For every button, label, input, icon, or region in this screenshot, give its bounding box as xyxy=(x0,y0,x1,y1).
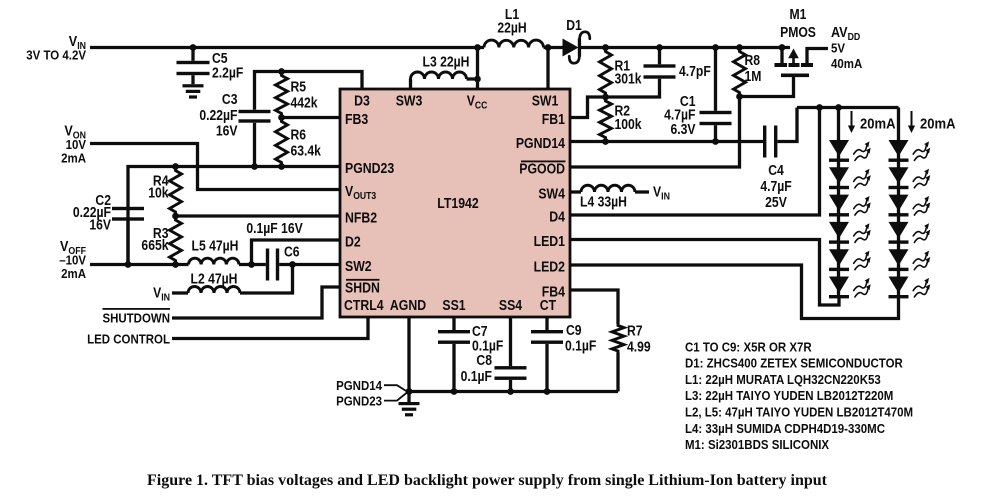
svg-text:20mA: 20mA xyxy=(920,115,956,132)
capacitor C8 xyxy=(509,317,512,366)
label R5 442k xyxy=(291,79,307,95)
svg-text:L3 22µH: L3 22µH xyxy=(423,54,470,70)
junction R5 top xyxy=(278,68,285,75)
pin VCC xyxy=(467,92,488,111)
svg-text:SW4: SW4 xyxy=(538,185,565,201)
svg-text:R5: R5 xyxy=(291,79,307,95)
label R3 665k xyxy=(153,225,169,241)
label C3 0.22µF 16V xyxy=(222,91,238,107)
label C6 xyxy=(284,244,300,260)
wire L1 to D1 xyxy=(544,46,564,49)
junction R1 top xyxy=(602,44,609,51)
svg-text:CT: CT xyxy=(540,297,557,313)
svg-text:40mA: 40mA xyxy=(831,56,862,71)
svg-text:R8: R8 xyxy=(745,52,761,68)
svg-text:FB3: FB3 xyxy=(345,111,369,127)
LED left string #4 xyxy=(829,222,849,239)
wire gate xyxy=(740,77,794,97)
LED left string #3 xyxy=(829,195,849,212)
svg-text:0.1µF: 0.1µF xyxy=(461,368,492,384)
svg-text:CTRL4: CTRL4 xyxy=(344,297,384,313)
wire FB4 to R7 xyxy=(570,290,618,324)
pin SW2 xyxy=(345,258,372,274)
svg-text:D2: D2 xyxy=(345,233,361,249)
wire FB1 xyxy=(570,97,606,118)
junction R2 bottom xyxy=(602,138,609,145)
node SHUTDOWN input label xyxy=(102,311,170,326)
label 20mA right xyxy=(911,111,913,127)
svg-text:PGND23: PGND23 xyxy=(336,394,382,409)
wire VON to VOUT3 xyxy=(90,144,340,190)
svg-text:D4: D4 xyxy=(549,208,565,224)
pin D2 xyxy=(345,233,361,249)
LED right string #3 xyxy=(889,195,909,212)
svg-text:2mA: 2mA xyxy=(61,266,86,281)
svg-text:0.1µF 16V: 0.1µF 16V xyxy=(246,220,302,236)
pin CTRL4 xyxy=(344,297,384,313)
junction L3/VCC xyxy=(474,76,481,83)
svg-text:442k: 442k xyxy=(291,95,319,111)
svg-text:VIN: VIN xyxy=(153,285,170,304)
LED left string #4 light arrows xyxy=(854,228,867,236)
junction R1/R2/FB1 xyxy=(602,94,609,101)
svg-text:16V: 16V xyxy=(89,217,111,233)
wire C2 bottom xyxy=(126,221,129,265)
LED left string #1 light arrows xyxy=(854,146,867,154)
wire PGND23 xyxy=(128,167,340,265)
wire NFB2 xyxy=(176,214,341,217)
wire L5 to C6 xyxy=(239,263,266,266)
LED right string #2 light arrows xyxy=(913,173,926,181)
junction C1 bottom xyxy=(712,138,719,145)
node AVDD output label xyxy=(831,23,860,43)
junction R4 top xyxy=(172,163,179,170)
node VIN input label xyxy=(69,32,86,52)
wire right LED string spine xyxy=(897,108,900,297)
pin FB3 xyxy=(345,111,369,127)
junction AGND/ground xyxy=(406,388,413,395)
label L1 22µH xyxy=(505,6,520,22)
LED left string #2 xyxy=(829,167,849,184)
U1 label LT1942 xyxy=(437,195,479,211)
pin PGOOD xyxy=(519,160,565,176)
svg-text:0.1µF: 0.1µF xyxy=(565,338,596,354)
svg-text:SW1: SW1 xyxy=(532,92,559,108)
svg-text:LED1: LED1 xyxy=(534,233,566,249)
resistor R5 442k xyxy=(276,72,288,118)
inductor L3 xyxy=(411,72,467,79)
capacitor C3 xyxy=(239,110,271,113)
wire PGOOD xyxy=(570,98,740,167)
svg-text:4.99: 4.99 xyxy=(627,339,651,355)
pin NFB2 xyxy=(345,209,377,225)
svg-text:L2 47µH: L2 47µH xyxy=(191,271,238,287)
wire D3 to divider top xyxy=(255,72,363,110)
wire C3 bottom xyxy=(253,123,256,167)
junction C1 top xyxy=(712,44,719,51)
resistor R3 665k xyxy=(170,216,182,265)
node LED CONTROL input label xyxy=(87,332,170,347)
pin PGND23 xyxy=(345,160,395,176)
capacitor 4.7pF xyxy=(658,48,661,65)
label PGND23 pointer xyxy=(336,394,382,409)
ground below C5 xyxy=(191,75,194,84)
LED left string #6 xyxy=(829,277,849,294)
wire FB3 xyxy=(282,116,341,119)
wire SHUTDOWN to SHDN xyxy=(172,287,340,318)
inductor L4 33µH xyxy=(581,185,635,192)
wire D1 to M1 xyxy=(580,46,790,49)
wire SW4 stub xyxy=(570,190,581,193)
label D1 xyxy=(566,17,582,33)
junction VCC/L1 xyxy=(474,44,481,51)
resistor R6 63.4k xyxy=(276,118,288,167)
svg-text:0.22µF: 0.22µF xyxy=(199,107,237,123)
inductor L5 47µH xyxy=(189,258,240,264)
label R2 100k xyxy=(615,103,631,119)
wire VIN rail xyxy=(90,46,484,49)
junction C2/VOFF xyxy=(125,261,132,268)
wire D2 xyxy=(252,240,341,265)
LED right string #1 light arrows xyxy=(913,146,926,154)
svg-text:1M: 1M xyxy=(745,68,762,84)
svg-text:SS4: SS4 xyxy=(499,297,523,313)
wire R7 to ground bus xyxy=(616,353,619,392)
junction R4/R3/NFB2 xyxy=(172,213,179,220)
label R7 4.99 xyxy=(627,323,643,339)
svg-text:63.4k: 63.4k xyxy=(291,143,322,159)
ground symbol AGND xyxy=(407,393,410,402)
svg-text:SW3: SW3 xyxy=(396,92,423,108)
wire SW1 drop xyxy=(546,48,549,90)
capacitor C5 xyxy=(191,48,194,61)
wire L3 right leg xyxy=(467,77,478,80)
svg-text:D1: D1 xyxy=(566,17,582,33)
svg-text:LED CONTROL: LED CONTROL xyxy=(87,332,170,347)
LED right string #6 light arrows xyxy=(913,283,926,291)
LED left string #3 light arrows xyxy=(854,201,867,209)
label C4 4.7µF 25V xyxy=(768,162,784,178)
wire C6 to SW2 xyxy=(279,263,340,266)
junction M1 source xyxy=(779,44,786,51)
capacitor C1 xyxy=(714,48,717,111)
label C7 0.1µF xyxy=(472,323,488,339)
svg-text:100k: 100k xyxy=(615,116,643,132)
svg-text:16V: 16V xyxy=(216,123,238,139)
junction SW1/L1 xyxy=(545,44,552,51)
LED right string #5 xyxy=(889,249,909,266)
wire D4 to rail xyxy=(570,108,820,216)
transistor M1 PMOS xyxy=(780,48,783,64)
svg-text:NFB2: NFB2 xyxy=(345,209,377,225)
label 4.7pF xyxy=(679,63,711,79)
label 0.1µF 16V (C6 value) xyxy=(246,220,302,236)
LED left string #5 light arrows xyxy=(854,255,867,263)
LED right string #4 xyxy=(889,222,909,239)
LED left string #5 xyxy=(829,249,849,266)
label R4 10k xyxy=(153,173,169,189)
svg-text:FB1: FB1 xyxy=(542,111,566,127)
label L2 47µH xyxy=(191,271,238,287)
pin VOUT3 xyxy=(345,183,376,202)
svg-text:M1: M1 xyxy=(790,6,807,22)
wire LED CONTROL to CTRL4 xyxy=(172,317,368,339)
LED left string #6 light arrows xyxy=(854,283,867,291)
inductor L2 47µH xyxy=(188,287,240,294)
op-amp U1 LT1942 IC body xyxy=(340,89,570,317)
capacitor C9 xyxy=(545,317,548,330)
svg-text:PMOS: PMOS xyxy=(780,24,816,40)
parts list line 3 xyxy=(685,372,881,387)
svg-text:6.3V: 6.3V xyxy=(670,121,695,137)
LED right string #5 light arrows xyxy=(913,255,926,263)
LED left string #1 xyxy=(829,140,849,157)
junction C7 bottom xyxy=(451,388,458,395)
svg-text:L2, L5: 47µH TAIYO YUDEN LB201: L2, L5: 47µH TAIYO YUDEN LB2012T470M xyxy=(685,405,913,420)
pin SW4 xyxy=(538,185,565,201)
svg-text:4.7µF: 4.7µF xyxy=(760,178,791,194)
node VIN label at L2 xyxy=(153,285,170,304)
capacitor C7 xyxy=(452,317,455,330)
svg-text:R7: R7 xyxy=(627,323,643,339)
svg-text:2.2µF: 2.2µF xyxy=(212,65,243,81)
pin AGND xyxy=(390,297,426,313)
junction R8/PGOOD/gate xyxy=(736,93,743,100)
svg-text:C8: C8 xyxy=(476,352,492,368)
wire AGND drop xyxy=(407,317,410,392)
wire VIN stub to L2 xyxy=(172,291,188,294)
wire L2 to SW2 xyxy=(240,265,293,294)
svg-text:D1: ZHCS400 ZETEX SEMICONDUCTO: D1: ZHCS400 ZETEX SEMICONDUCTOR xyxy=(685,356,903,371)
LED right string #6 xyxy=(889,277,909,294)
wire L4 to VIN xyxy=(635,190,649,193)
junction C6/L2/SW2 xyxy=(289,261,296,268)
label L5 47µH xyxy=(192,238,239,254)
svg-text:10k: 10k xyxy=(148,185,169,201)
svg-text:R6: R6 xyxy=(291,127,307,143)
svg-text:2mA: 2mA xyxy=(61,151,86,166)
svg-text:PGND23: PGND23 xyxy=(345,160,395,176)
svg-text:20mA: 20mA xyxy=(860,115,896,132)
pin FB4 xyxy=(542,283,566,299)
label PGND14 pointer xyxy=(336,378,382,393)
junction L5/D2/C6 xyxy=(248,261,255,268)
diode D1 (schottky) xyxy=(563,39,579,57)
svg-text:4.7pF: 4.7pF xyxy=(679,63,711,79)
junction left string/rail xyxy=(835,104,842,111)
label R8 1M xyxy=(745,52,761,68)
label L4 33µH xyxy=(580,194,627,210)
label L3 22µH xyxy=(423,54,470,70)
pin D4 xyxy=(549,208,565,224)
label R6 63.4k xyxy=(291,127,307,143)
svg-text:PGOOD: PGOOD xyxy=(519,160,565,176)
parts list line 1 xyxy=(685,340,812,355)
svg-text:L5 47µH: L5 47µH xyxy=(192,238,239,254)
resistor R8 1M xyxy=(734,48,746,97)
resistor R7 4.99 xyxy=(612,324,624,353)
pin SS1 xyxy=(442,297,466,313)
junction R3 bottom xyxy=(172,261,179,268)
label C5 2.2µF xyxy=(212,50,228,66)
inductor L1 xyxy=(484,40,544,47)
svg-text:Figure 1. TFT bias voltages an: Figure 1. TFT bias voltages and LED back… xyxy=(147,472,828,489)
svg-text:SHUTDOWN: SHUTDOWN xyxy=(102,311,170,326)
svg-text:L4: 33µH SUMIDA CDPH4D19-330MC: L4: 33µH SUMIDA CDPH4D19-330MC xyxy=(685,421,885,436)
label R1 301k xyxy=(615,58,631,74)
capacitor C2 xyxy=(112,207,144,210)
svg-text:22µH: 22µH xyxy=(497,20,526,36)
svg-text:SW2: SW2 xyxy=(345,258,372,274)
pin SS4 xyxy=(499,297,523,313)
junction C9 bottom xyxy=(544,388,551,395)
pin D3 xyxy=(354,92,370,108)
wire L3 left leg xyxy=(409,79,412,89)
svg-text:L1: 22µH MURATA LQH32CN220K53: L1: 22µH MURATA LQH32CN220K53 xyxy=(685,372,881,387)
label 20mA left xyxy=(851,111,853,127)
LED right string #4 light arrows xyxy=(913,228,926,236)
pin FB1 xyxy=(542,111,566,127)
capacitor C6 xyxy=(266,249,269,281)
wire left LED string spine xyxy=(837,108,840,297)
pin SW1 xyxy=(532,92,559,108)
junction R6 bottom xyxy=(278,163,285,170)
junction 4.7pF top xyxy=(656,44,663,51)
wire LED rail xyxy=(797,106,899,109)
parts list line 4 xyxy=(685,388,893,403)
svg-text:SHDN: SHDN xyxy=(345,280,380,296)
svg-text:301k: 301k xyxy=(615,71,643,87)
svg-text:C3: C3 xyxy=(222,91,238,107)
figure caption xyxy=(147,472,828,489)
label C8 0.1µF xyxy=(476,352,492,368)
label C9 0.1µF xyxy=(566,322,582,338)
capacitor C4 xyxy=(763,126,766,158)
pin LED1 xyxy=(534,233,566,249)
svg-text:L3: 22µH TAIYO YUDEN LB2012T22: L3: 22µH TAIYO YUDEN LB2012T220M xyxy=(685,388,893,403)
wire 4.7pF bottom xyxy=(606,79,660,97)
wire C4 to LED rail xyxy=(778,108,798,142)
svg-text:C1 TO C9: X5R OR X7R: C1 TO C9: X5R OR X7R xyxy=(685,340,812,355)
pin PGND14 xyxy=(516,135,566,151)
svg-text:3V TO 4.2V: 3V TO 4.2V xyxy=(26,48,86,63)
node VOFF input label xyxy=(60,237,86,257)
pin CT xyxy=(540,297,557,313)
svg-text:C4: C4 xyxy=(768,162,784,178)
node VIN label at L4 xyxy=(653,184,670,203)
node VON input label xyxy=(64,121,86,141)
LED left string #2 light arrows xyxy=(854,173,867,181)
LED right string #2 xyxy=(889,167,909,184)
svg-text:25V: 25V xyxy=(765,194,787,210)
svg-text:SS1: SS1 xyxy=(442,297,466,313)
junction D4/rail xyxy=(816,104,823,111)
parts list line 5 xyxy=(685,405,913,420)
pin LED2 xyxy=(534,258,566,274)
parts list line 2 xyxy=(685,356,903,371)
svg-text:L4 33µH: L4 33µH xyxy=(580,194,627,210)
svg-text:M1: Si2301BDS SILICONIX: M1: Si2301BDS SILICONIX xyxy=(685,437,830,452)
wire ground bus xyxy=(409,390,618,393)
wire VCC drop xyxy=(476,48,479,90)
label C1 4.7µF 6.3V xyxy=(680,93,696,109)
svg-text:PGND14: PGND14 xyxy=(516,135,566,151)
junction C5 top xyxy=(190,44,197,51)
svg-text:VIN: VIN xyxy=(653,184,670,203)
svg-text:LED2: LED2 xyxy=(534,258,566,274)
resistor R4 10k xyxy=(170,167,182,217)
wire PGND14 xyxy=(570,140,763,143)
junction C3 bottom xyxy=(251,163,258,170)
pin SHDN xyxy=(345,280,380,296)
svg-text:D3: D3 xyxy=(354,92,370,108)
wire LED1 to left string xyxy=(570,240,839,306)
svg-text:C6: C6 xyxy=(284,244,300,260)
svg-text:C9: C9 xyxy=(566,322,582,338)
svg-text:LT1942: LT1942 xyxy=(437,195,479,211)
junction R8 top xyxy=(736,44,743,51)
LED right string #3 light arrows xyxy=(913,201,926,209)
LED right string #1 xyxy=(889,140,909,157)
wire VOFF xyxy=(90,263,189,266)
svg-text:5V: 5V xyxy=(831,41,846,56)
label C2 0.22µF 16V xyxy=(95,192,111,208)
label M1 PMOS xyxy=(790,6,807,22)
junction C8 bottom xyxy=(507,388,514,395)
resistor R2 100k xyxy=(600,97,612,142)
parts list line 7 xyxy=(685,437,830,452)
svg-text:AGND: AGND xyxy=(390,297,426,313)
resistor R1 301k xyxy=(600,48,612,98)
junction FB3/R5/R6 xyxy=(278,114,285,121)
svg-text:PGND14: PGND14 xyxy=(336,378,382,393)
pin SW3 xyxy=(396,92,423,108)
wire LED2 to right string xyxy=(570,265,899,319)
parts list line 6 xyxy=(685,421,885,436)
svg-text:665k: 665k xyxy=(141,237,169,253)
